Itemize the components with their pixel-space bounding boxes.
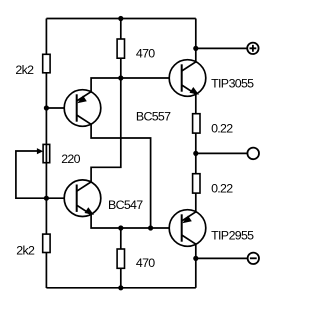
junction node V- tap [193, 256, 198, 261]
junction node output tap [193, 151, 198, 156]
svg-text:0.22: 0.22 [211, 121, 233, 135]
potentiometer VR1 220 [43, 144, 50, 162]
junction node BC557 collector / TIP2955 base [148, 225, 153, 230]
svg-text:220: 220 [61, 152, 80, 166]
wire top junction horizontal (BC557 emitter to TIP3055 base) [91, 78, 182, 92]
junction node top rail / 470 [118, 16, 123, 21]
wire to minus terminal [196, 257, 248, 259]
svg-text:BC557: BC557 [136, 109, 171, 123]
terminal V- [248, 253, 259, 264]
transistor Q2 BC547 (NPN) [64, 180, 101, 217]
wire top rail [46, 18, 195, 20]
svg-text:0.22: 0.22 [211, 181, 233, 195]
resistor R2 470 top [117, 39, 124, 58]
svg-text:470: 470 [136, 256, 155, 270]
wire left rail [45, 19, 47, 289]
svg-text:2k2: 2k2 [15, 63, 34, 77]
junction node bottom rail / 470 [118, 285, 123, 290]
svg-text:TIP3055: TIP3055 [211, 77, 254, 91]
junction node BC547 base / wiper [44, 196, 49, 201]
transistor Q3 TIP3055 (NPN) [169, 60, 206, 97]
wire bottom rail [46, 287, 195, 289]
resistor R4 470 bottom [117, 249, 124, 268]
resistor R5 0.22 upper [193, 114, 200, 133]
junction node BC557 base [44, 105, 49, 110]
wire bottom junction horizontal (BC547 emitter to TIP2955 base) [91, 214, 182, 228]
svg-text:BC547: BC547 [108, 198, 143, 212]
potentiometer wiper arrowhead [37, 148, 43, 154]
wire BC557 base [46, 107, 76, 109]
wire to plus terminal [196, 47, 247, 49]
resistor R3 2k2 bottom [43, 234, 50, 252]
wire middle rail (top rail through 470 down to corner, to BC547 collector) [91, 19, 121, 183]
junction node 470/BC557 emitter/TIP3055 base [118, 75, 123, 80]
wire BC547 base [46, 197, 76, 199]
wire BC557 collector path [91, 124, 151, 228]
junction node 470 bottom / BC547 emitter [118, 225, 123, 230]
terminal output [247, 148, 259, 160]
transistor Q1 BC557 (PNP) [64, 90, 101, 127]
wire to output terminal [196, 152, 248, 154]
resistor R1 2k2 top [43, 54, 50, 73]
svg-text:TIP2955: TIP2955 [211, 228, 254, 242]
wire right rail upper (V+ to TIP3055 collector) [195, 19, 197, 63]
wire middle rail bottom (junction to 470 to bottom rail) [120, 228, 122, 288]
svg-text:2k2: 2k2 [16, 244, 35, 258]
terminal V+ [247, 43, 258, 54]
resistor R6 0.22 lower [193, 174, 200, 193]
svg-text:470: 470 [136, 46, 155, 60]
wire right rail middle (TIP3055 emitter through 0.22 pair to TIP2955 emitter) [195, 95, 197, 213]
transistor Q4 TIP2955 (PNP) [169, 210, 206, 247]
wire right rail lower (TIP2955 collector to bottom rail) [195, 245, 197, 288]
wire pot wiper feedback loop [16, 151, 47, 198]
junction node V+ tap [193, 46, 198, 51]
